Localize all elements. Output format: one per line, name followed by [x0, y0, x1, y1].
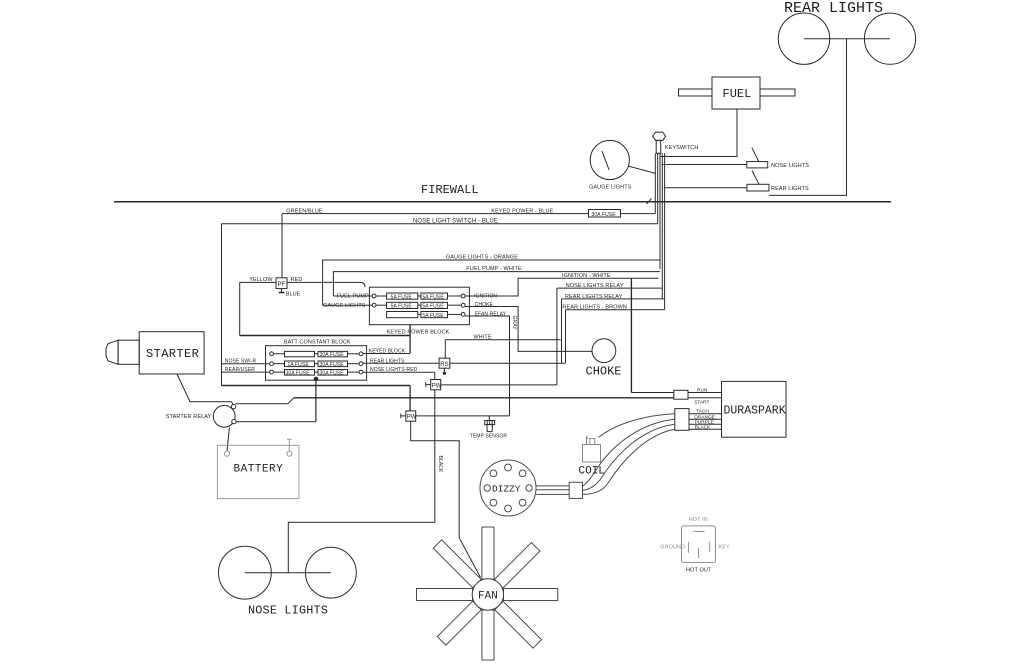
battery terminal negative [224, 451, 229, 456]
svg-text:5A FUSE: 5A FUSE [422, 304, 444, 310]
firewall crossing slash [647, 199, 652, 205]
wire block output vertical [315, 379, 317, 422]
wire between nose lamps [245, 572, 331, 574]
svg-text:FAN: FAN [478, 591, 498, 603]
svg-text:YELLOW: YELLOW [249, 277, 273, 283]
harness curve to coil [599, 414, 675, 438]
wire efan feed to fan [411, 421, 481, 577]
svg-text:TEMP SENSOR: TEMP SENSOR [470, 433, 508, 439]
fuse rect row1 right 30A FUSE [318, 351, 348, 356]
nose light lamp L3 [219, 546, 272, 599]
terminal circles right column [359, 352, 363, 356]
relay terminal top [231, 404, 235, 408]
svg-text:NOSE LIGHTS RELAY: NOSE LIGHTS RELAY [566, 283, 624, 289]
svg-text:RUN: RUN [697, 387, 708, 393]
wire keyed power blue [282, 213, 655, 215]
wire green/blue drop [281, 214, 283, 278]
svg-text:IGNITION - WHITE: IGNITION - WHITE [562, 273, 611, 279]
svg-text:HOT IN: HOT IN [689, 517, 708, 523]
wire left main vertical [221, 224, 223, 386]
svg-text:BLACK: BLACK [695, 425, 712, 431]
wire rear relay drop [561, 299, 563, 363]
svg-text:START: START [694, 399, 709, 405]
fuel sender left stub [679, 89, 713, 96]
connector 4pin J4 [675, 409, 689, 431]
battery BT1 [217, 445, 299, 498]
svg-text:GAUGE LIGHTS - ORANGE: GAUGE LIGHTS - ORANGE [446, 254, 518, 260]
fuse rect k-row1 left 5A FUSE [387, 293, 418, 299]
wire temp sensor drop [488, 416, 490, 421]
wire nose light switch blue [222, 223, 658, 225]
wire gauge row in [323, 304, 373, 306]
fuel gauge FUEL [712, 77, 760, 109]
wire brown drop [565, 310, 567, 363]
svg-text:30A FUSE: 30A FUSE [286, 370, 311, 376]
wire white choke feed [445, 339, 560, 341]
keyswitch stem [656, 140, 661, 153]
connector PF inline [276, 278, 287, 289]
ignition coil T1 [583, 445, 601, 463]
wire gauge lights orange [323, 260, 660, 305]
connector PW1 [431, 380, 441, 390]
dizzy lead wires [536, 485, 569, 487]
svg-text:ORANGE: ORANGE [694, 414, 715, 420]
svg-text:30A FUSE: 30A FUSE [320, 352, 345, 358]
svg-text:REAR LIGHTS: REAR LIGHTS [784, 0, 883, 17]
svg-text:5A FUSE: 5A FUSE [422, 313, 444, 319]
svg-text:STARTER: STARTER [146, 347, 199, 361]
fuse rect k-row3 right 5A FUSE [421, 312, 448, 318]
svg-text:REAR LIGHTS: REAR LIGHTS [370, 358, 405, 364]
svg-text:BATTERY: BATTERY [234, 464, 284, 476]
svg-text:PW: PW [432, 383, 442, 389]
ground on RS [443, 368, 445, 372]
svg-text:BATT CONSTANT BLOCK: BATT CONSTANT BLOCK [284, 339, 351, 345]
svg-text:NOSE LIGHTS-RED: NOSE LIGHTS-RED [370, 367, 418, 373]
svg-text:KEYED POWER BLOCK: KEYED POWER BLOCK [387, 330, 450, 336]
firewall line [114, 201, 891, 203]
harness curve 2 to dizzy [583, 424, 675, 490]
coil terminal post [587, 437, 589, 445]
wire black down to nose lamps [288, 372, 435, 573]
wire black pin [689, 428, 722, 430]
dizzy cap terminals [484, 464, 532, 512]
svg-text:30A FUSE: 30A FUSE [320, 370, 345, 376]
connector NOSE LIGHTS J1 [747, 162, 768, 168]
wire fuel pump white [333, 272, 660, 296]
svg-text:5A FUSE: 5A FUSE [391, 304, 413, 310]
svg-text:NOSE LIGHTS: NOSE LIGHTS [248, 604, 328, 618]
connector PW2 [406, 411, 416, 421]
svg-text:NOSE LIGHTS: NOSE LIGHTS [771, 163, 809, 169]
wire bundle to J1 [662, 164, 747, 166]
svg-text:KEYED BLOCK: KEYED BLOCK [369, 348, 406, 354]
wire tach [689, 413, 722, 415]
wire ignition down to duraspark run [630, 278, 632, 392]
svg-text:REAR/USER: REAR/USER [225, 367, 255, 373]
svg-text:5A FUSE: 5A FUSE [391, 294, 413, 300]
wire efan gray [465, 316, 509, 416]
svg-text:COIL: COIL [579, 466, 605, 478]
connector RUN/START J3 [674, 390, 688, 399]
svg-text:HOT OUT: HOT OUT [686, 568, 712, 574]
batt constant block B1 [266, 346, 367, 381]
harness curve 1 to dizzy [583, 419, 675, 486]
wire rear lights feed vertical [769, 39, 847, 196]
wire bundle to J2 [664, 187, 747, 189]
temp sensor TS1 [485, 421, 495, 425]
gauge lights gauge G1 [590, 140, 629, 179]
terminal circles left column [270, 352, 274, 356]
svg-text:FIREWALL: FIREWALL [421, 183, 479, 197]
terminal circles keyed right [461, 294, 465, 298]
svg-text:GAUGE LIGHTS: GAUGE LIGHTS [323, 303, 366, 309]
leader line gauge to bundle [628, 166, 656, 174]
svg-text:GROUND: GROUND [660, 545, 685, 551]
fuse 30A FUSE F1 [589, 210, 621, 218]
fuse rect k-row2 right 5A FUSE [421, 302, 448, 308]
wire between rear lamps [804, 38, 890, 40]
svg-text:KEYED POWER - BLUE: KEYED POWER - BLUE [491, 208, 553, 214]
switch slash on J2 [752, 171, 759, 185]
connector REAR LIGHTS J2 [747, 184, 769, 191]
fuel sender right stub [760, 89, 795, 96]
svg-text:1A FUSE: 1A FUSE [288, 362, 310, 368]
starter nose tip [106, 340, 118, 364]
wire starter to relay [177, 374, 233, 405]
fuse rect k-row1 right 5A FUSE [421, 293, 448, 299]
fuse rect row2 right 30A FUSE [318, 361, 348, 367]
nose light lamp L4 [306, 547, 357, 598]
svg-text:GAUGE LIGHTS: GAUGE LIGHTS [589, 184, 632, 190]
wire fuel pump row in [333, 295, 372, 297]
starter relay K1 [213, 405, 235, 427]
distributor DIZZY [480, 460, 536, 516]
choke solenoid [592, 339, 616, 363]
svg-text:BLUE: BLUE [286, 292, 301, 298]
svg-text:REAR LIGHTS - BROWN: REAR LIGHTS - BROWN [562, 305, 627, 311]
svg-text:PW: PW [407, 415, 417, 421]
fuse rect row2 left 1A FUSE [285, 361, 315, 367]
stub on PW1 [426, 384, 431, 386]
row link wires inside block [273, 353, 284, 355]
wire rear/user row feed [222, 371, 270, 373]
svg-text:KEYSWITCH: KEYSWITCH [665, 145, 699, 151]
coil hv tower [590, 439, 595, 445]
ground stub on PF [281, 289, 283, 293]
svg-text:FUEL PUMP - WHITE: FUEL PUMP - WHITE [466, 266, 522, 272]
svg-text:30A FUSE: 30A FUSE [592, 212, 617, 218]
wire relay jog to start bus [236, 398, 294, 404]
wire purple [689, 423, 722, 425]
svg-text:KEY: KEY [719, 545, 731, 551]
svg-text:DURASPARK: DURASPARK [724, 405, 786, 418]
wire rear lights brown [566, 309, 665, 311]
wire white to RS [444, 340, 446, 359]
fuse rect row3 right 30A FUSE [318, 370, 348, 376]
dizzy connector J5 [569, 482, 582, 498]
svg-text:REAR LIGHTS: REAR LIGHTS [771, 186, 809, 192]
stub on PW2 [401, 415, 406, 417]
duraspark module U1 [722, 381, 787, 437]
wire relay to block vertical [236, 421, 316, 423]
wire relay to battery [227, 427, 229, 451]
svg-text:NOSE LIGHT SWITCH - BLUE: NOSE LIGHT SWITCH - BLUE [413, 218, 498, 224]
svg-text:RS: RS [440, 362, 448, 368]
svg-text:30A FUSE: 30A FUSE [320, 362, 345, 368]
wire PW2 bus [416, 415, 510, 417]
battery terminal positive [287, 451, 292, 456]
fuse rect row3 left 30A FUSE [285, 370, 315, 376]
junction dot block output [314, 377, 318, 381]
keyed power block B2 [369, 287, 469, 325]
switch slash on J1 [752, 148, 759, 162]
fuse rect k-row2 left 5A FUSE [387, 302, 418, 308]
gauge needle [602, 151, 609, 170]
svg-text:PF: PF [278, 282, 286, 288]
svg-text:CHOKE: CHOKE [586, 365, 622, 379]
wire bus drop to PW2 [409, 386, 411, 411]
keyswitch S1 body [653, 132, 666, 140]
svg-text:DIZZY: DIZZY [492, 484, 521, 495]
wire yellow source vertical [239, 282, 241, 335]
rear light lamp L2 [864, 13, 915, 64]
wire rear lights relay [562, 298, 665, 300]
svg-text:TACH: TACH [696, 409, 709, 415]
wire keyed block bottom link [409, 325, 411, 354]
fuse rect k-row3 left empty [387, 312, 418, 318]
wire nose switch row feed [222, 363, 270, 365]
wire yellow feed [240, 281, 276, 283]
svg-text:IGNITION: IGNITION [474, 294, 497, 300]
wire orange [689, 418, 722, 420]
wire keyed block row out [363, 353, 410, 355]
rear light lamp L1 [778, 13, 829, 64]
relay terminal bottom [232, 419, 236, 423]
svg-text:BLACK: BLACK [437, 456, 443, 473]
svg-text:GREEN/BLUE: GREEN/BLUE [286, 208, 323, 214]
svg-text:NOSE SWI-R: NOSE SWI-R [225, 358, 257, 364]
wire harness bundle below keyswitch [654, 153, 656, 213]
battery positive post mark [288, 439, 290, 451]
wire ignition white [465, 278, 658, 296]
harness curve 3 to dizzy [583, 429, 675, 494]
fuse rect row1 left empty [285, 351, 315, 356]
fan hub [472, 579, 503, 610]
wire PW1 bus [441, 384, 557, 386]
wire rear lights row out [363, 362, 439, 364]
accessory relay K2 [682, 526, 716, 563]
wire keyed feed bottom run [240, 335, 410, 337]
svg-text:PURPLE: PURPLE [695, 419, 714, 425]
svg-text:STARTER RELAY: STARTER RELAY [166, 414, 212, 420]
resistor RS [439, 358, 450, 368]
wire run [688, 392, 722, 394]
starter nose housing [118, 340, 139, 364]
keyed row link wires [376, 295, 387, 297]
svg-text:5A FUSE: 5A FUSE [422, 294, 444, 300]
electric fan blades [391, 496, 585, 663]
wire red feed into keyed block [287, 282, 365, 287]
wire start bus to duraspark [294, 397, 674, 399]
svg-text:GRAY: GRAY [511, 316, 517, 331]
wire RS output bus [450, 362, 566, 364]
wire main feed bus [222, 385, 411, 387]
wire fuel to keyswitch bus [660, 109, 737, 157]
wire nose lights-red row out [363, 371, 435, 373]
wire choke row out [465, 307, 592, 352]
svg-text:FUEL: FUEL [723, 87, 752, 101]
starter motor M1 [139, 332, 204, 374]
svg-text:WHITE: WHITE [473, 335, 491, 341]
wire nose lights relay [557, 287, 662, 289]
terminal circles keyed left [372, 294, 376, 298]
wire start [688, 397, 722, 399]
wire nose relay drop [556, 288, 558, 385]
svg-text:REAR LIGHTS RELAY: REAR LIGHTS RELAY [565, 294, 623, 300]
